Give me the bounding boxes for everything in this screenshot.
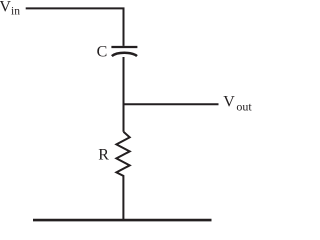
svg-text:R: R: [98, 147, 109, 164]
svg-text:out: out: [236, 99, 252, 113]
svg-text:V: V: [223, 94, 235, 111]
svg-text:in: in: [11, 5, 20, 17]
svg-text:C: C: [97, 44, 108, 61]
svg-text:V: V: [0, 0, 11, 15]
